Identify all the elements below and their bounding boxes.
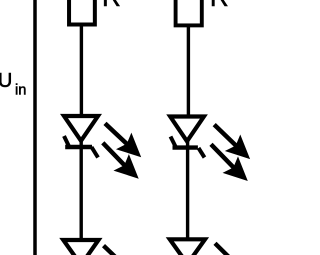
svg-text:U: U bbox=[0, 70, 12, 92]
label Uin (input voltage) bbox=[0, 70, 26, 99]
svg-text:in: in bbox=[15, 83, 26, 99]
LED D1 (branch 1, upper) bbox=[64, 116, 98, 158]
LED D4 (branch 2, lower, cropped at bottom) bbox=[170, 239, 205, 255]
LED D1 light arrow 1 bbox=[105, 123, 141, 157]
resistor R1 bbox=[69, 0, 95, 25]
LED D4 light arrow 1 (cropped) bbox=[215, 243, 240, 255]
LED D3 light arrow 1 bbox=[214, 125, 250, 160]
resistor R2 bbox=[176, 0, 202, 25]
LED D1 light arrow 2 bbox=[103, 143, 139, 179]
LED D2 (branch 1, lower, cropped at bottom) bbox=[63, 240, 98, 255]
svg-text:R: R bbox=[210, 0, 229, 12]
wire R2 to D3 bbox=[187, 25, 190, 118]
LED D2 light arrow 1 (cropped) bbox=[104, 246, 130, 255]
wire R1 to D1 bbox=[80, 25, 83, 118]
svg-text:R: R bbox=[102, 0, 121, 12]
LED D3 (branch 2, upper) bbox=[170, 117, 204, 158]
wire D1 to D2 bbox=[79, 139, 82, 240]
wire: left input rail bbox=[33, 0, 37, 255]
wire D3 to D4 bbox=[186, 139, 189, 239]
LED D3 light arrow 2 bbox=[211, 144, 248, 181]
